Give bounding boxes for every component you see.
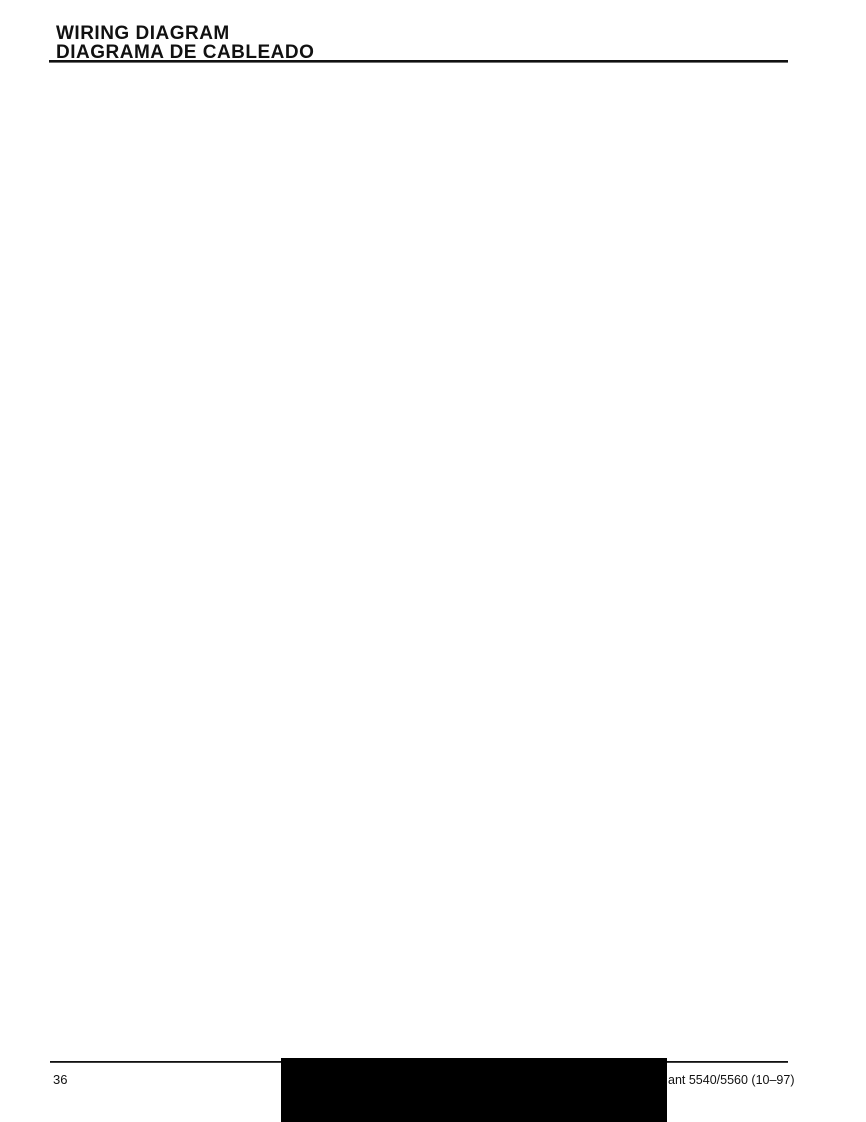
svg-text:DIAGRAMA DE CABLEADO: DIAGRAMA DE CABLEADO: [56, 42, 314, 63]
svg-text:36: 36: [53, 1072, 67, 1087]
svg-text:WIRING DIAGRAM: WIRING DIAGRAM: [56, 23, 230, 44]
svg-text:ant 5540/5560 (10–97): ant 5540/5560 (10–97): [668, 1073, 795, 1087]
